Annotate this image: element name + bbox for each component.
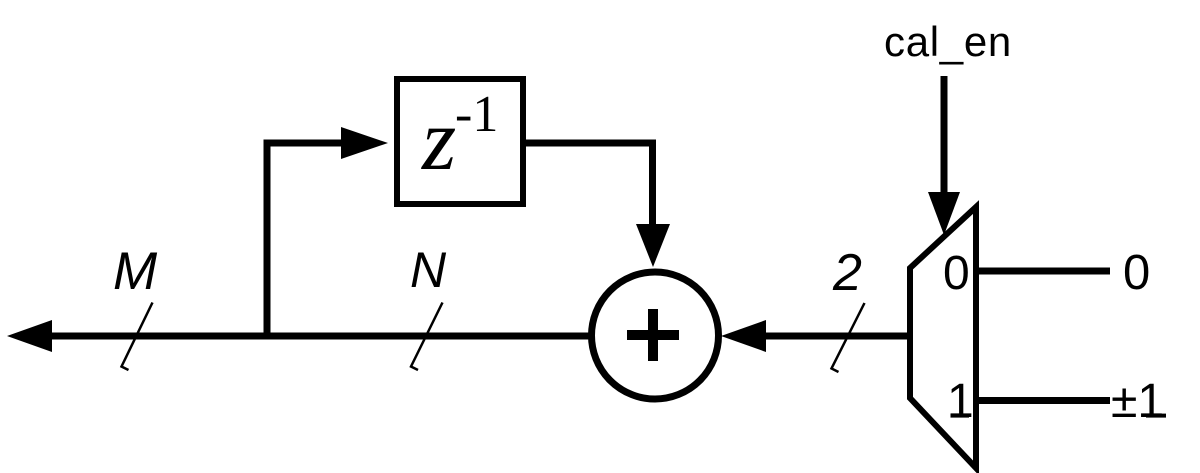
wire mux input 0 (970, 268, 1110, 275)
svg-text:1: 1 (947, 375, 974, 428)
serif foot of constant 1 (1146, 414, 1166, 418)
svg-text:cal_en: cal_en (884, 18, 1012, 65)
plus sign (627, 309, 679, 361)
svg-text:-1: -1 (455, 86, 498, 143)
svg-text:0: 0 (1123, 246, 1150, 300)
wire mux output to adder (764, 333, 912, 340)
arrowhead into adder top (636, 224, 670, 267)
arrowhead into delay block (341, 127, 388, 159)
arrowhead cal_en into mux (928, 192, 960, 235)
wire main output bus (adder to left arrow) (45, 333, 592, 340)
wire delay output vertical (649, 140, 656, 229)
adder U1 (592, 272, 719, 399)
bus slash 2 (832, 303, 865, 372)
wire mux input 1 (970, 397, 1110, 404)
svg-text:N: N (410, 242, 447, 298)
svg-text:M: M (113, 242, 158, 301)
svg-text:z: z (421, 92, 456, 189)
serif foot of mux label 1 (951, 414, 970, 418)
svg-text:0: 0 (943, 247, 970, 300)
svg-text:2: 2 (832, 244, 862, 302)
delay block Z1 (397, 79, 523, 204)
mux M1 (910, 207, 976, 468)
bus slash N (411, 303, 443, 371)
svg-text:±1: ±1 (1111, 375, 1164, 428)
wire delay output horizontal (523, 140, 652, 147)
arrowhead into adder right (721, 320, 766, 352)
bus slash M (122, 303, 153, 371)
wire cal_en select (941, 76, 948, 196)
arrowhead output left (7, 320, 52, 352)
wire feedback vertical (264, 143, 271, 340)
wire feedback horizontal into delay (264, 140, 346, 147)
